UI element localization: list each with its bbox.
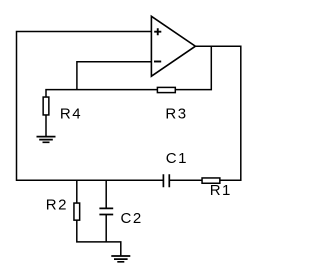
svg-text:C1: C1 <box>166 150 188 167</box>
svg-text:C2: C2 <box>121 210 143 227</box>
svg-text:R2: R2 <box>46 196 68 213</box>
svg-text:R1: R1 <box>210 182 232 199</box>
svg-text:R4: R4 <box>60 106 82 123</box>
svg-text:R3: R3 <box>165 106 187 123</box>
